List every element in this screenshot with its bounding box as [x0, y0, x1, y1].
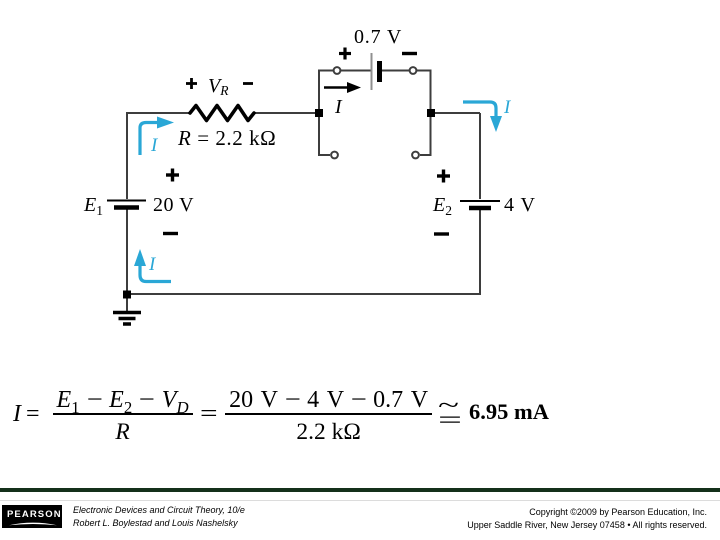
- wire right vertical top: [479, 113, 481, 199]
- node junction left: [315, 109, 323, 117]
- current arrow I left-top (cyan): [140, 117, 174, 156]
- wire battery top right: [382, 70, 409, 72]
- wire bracket left: [319, 71, 336, 156]
- Pearson logo: [2, 505, 62, 528]
- wire battery top left: [340, 70, 371, 72]
- terminal circle bottom-right: [412, 152, 419, 159]
- green rule: [0, 488, 720, 492]
- label E1 minus: [163, 232, 178, 235]
- wire resistor-to-node: [254, 112, 320, 114]
- label E2 plus: [437, 170, 450, 183]
- equation: [13, 387, 549, 440]
- label VR minus: [243, 82, 253, 85]
- battery E2 plates: [460, 201, 500, 208]
- faint hairline: [0, 500, 720, 501]
- label minus diode: [402, 52, 417, 55]
- label E1 plus: [166, 169, 179, 182]
- copyright: [467, 506, 707, 531]
- wire left vertical bottom: [126, 208, 128, 312]
- current arrow I right (cyan): [463, 102, 502, 132]
- resistor R: [190, 106, 254, 121]
- battery E1 plates: [107, 201, 146, 208]
- terminal circle top-right: [410, 67, 417, 74]
- current arrow I left-bottom (cyan): [134, 249, 171, 282]
- ground symbol: [113, 313, 141, 325]
- book title: [73, 504, 245, 529]
- wire bottom rail: [127, 293, 481, 295]
- Pearson swoosh: [2, 505, 62, 528]
- wire top-left horizontal: [126, 112, 191, 114]
- current arrow I top (black): [324, 82, 361, 93]
- diode battery 0.7V plates: [372, 53, 380, 90]
- label plus diode: [339, 48, 351, 60]
- wire bracket right: [417, 71, 431, 156]
- label VR plus: [186, 78, 197, 89]
- wire node-to-corner horizontal: [430, 112, 480, 114]
- node junction right: [427, 109, 435, 117]
- wire right vertical bottom: [479, 209, 481, 294]
- terminal circle top-left: [334, 67, 341, 74]
- terminal circle bottom-left: [331, 152, 338, 159]
- wire left vertical top: [126, 113, 128, 199]
- label E2 minus: [434, 232, 449, 235]
- node junction ground: [123, 291, 131, 299]
